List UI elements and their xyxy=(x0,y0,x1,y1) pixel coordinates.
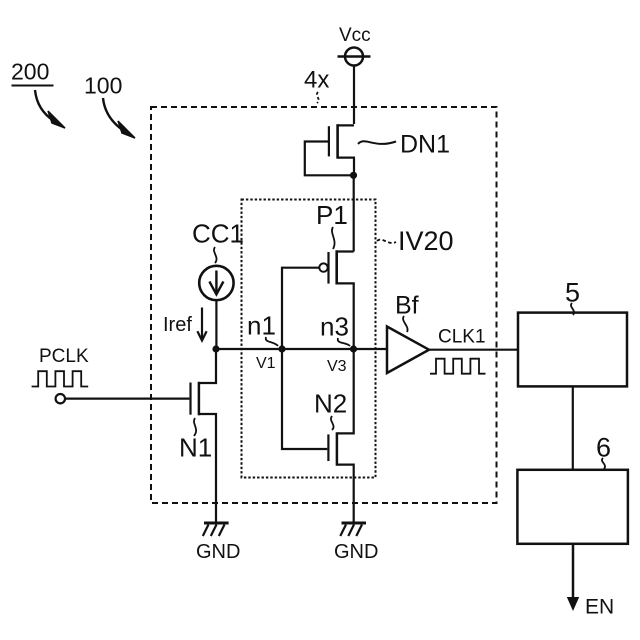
svg-text:DN1: DN1 xyxy=(400,131,450,159)
inner dotted box IV20 xyxy=(242,200,376,478)
node junction CC1/N1 xyxy=(212,345,219,352)
outer dashed box 100 xyxy=(151,107,497,503)
label 6 xyxy=(596,433,611,470)
svg-text:6: 6 xyxy=(596,433,611,463)
input terminal xyxy=(56,394,65,403)
svg-text:n1: n1 xyxy=(247,311,276,341)
wire buffer to block 5 xyxy=(429,349,518,351)
label 5 xyxy=(565,278,580,316)
svg-text:P1: P1 xyxy=(316,200,348,230)
svg-text:5: 5 xyxy=(565,278,580,308)
DN1 label xyxy=(358,131,450,159)
block 6 xyxy=(517,470,628,544)
node n3 xyxy=(320,312,357,353)
svg-text:4x: 4x xyxy=(304,67,329,94)
svg-text:Vcc: Vcc xyxy=(339,25,371,46)
svg-text:PCLK: PCLK xyxy=(39,346,89,367)
ground GND left xyxy=(196,523,240,563)
CC1 label xyxy=(192,219,244,264)
ground GND right xyxy=(334,523,378,563)
main node rail wire xyxy=(216,348,388,350)
arrow from 200 xyxy=(35,90,65,128)
IV20 label xyxy=(377,226,454,256)
CLK1 waveform xyxy=(430,359,486,374)
block 5 xyxy=(518,313,627,387)
wire n1 to N2 gate xyxy=(282,349,327,449)
svg-text:N2: N2 xyxy=(314,389,347,419)
node n1 xyxy=(247,311,286,353)
svg-text:n3: n3 xyxy=(320,312,349,342)
wire CC1 to n1 rail xyxy=(215,300,217,350)
svg-text:Iref: Iref xyxy=(163,314,192,336)
label 200 xyxy=(11,59,54,86)
svg-text:EN: EN xyxy=(585,596,614,619)
wire P1 gate to n1 xyxy=(282,268,319,349)
svg-text:V1: V1 xyxy=(256,355,276,372)
svg-text:GND: GND xyxy=(196,541,240,563)
transistor N2 xyxy=(328,349,353,523)
N1 label xyxy=(179,418,212,463)
transistor P1 xyxy=(319,250,353,349)
4x label xyxy=(304,67,329,104)
PCLK waveform xyxy=(32,371,89,386)
transistor DN1 xyxy=(305,124,354,175)
svg-text:CLK1: CLK1 xyxy=(438,327,486,348)
svg-text:200: 200 xyxy=(11,59,49,85)
svg-text:CC1: CC1 xyxy=(192,219,244,249)
wire DN1 to P1 source xyxy=(353,175,355,251)
transistor N1 xyxy=(191,349,217,523)
svg-text:N1: N1 xyxy=(179,433,212,463)
svg-text:Bf: Bf xyxy=(395,292,419,320)
arrow from 100 xyxy=(103,98,135,138)
svg-text:V3: V3 xyxy=(327,358,347,375)
wire Vcc to DN1 drain xyxy=(353,66,355,125)
svg-text:100: 100 xyxy=(84,73,122,99)
wire block5 to block6 xyxy=(572,386,574,469)
current source CC1 xyxy=(199,266,233,300)
svg-text:GND: GND xyxy=(334,541,378,563)
Vcc supply terminal xyxy=(338,48,371,66)
N2 label xyxy=(314,389,347,431)
EN output arrow xyxy=(567,544,579,611)
Iref arrow xyxy=(197,308,206,341)
Bf label xyxy=(395,292,419,333)
P1 label xyxy=(316,200,348,249)
wire input to N1 gate xyxy=(65,398,189,400)
buffer Bf xyxy=(387,327,429,374)
node dot DN1 source xyxy=(350,172,357,179)
svg-text:IV20: IV20 xyxy=(398,226,454,256)
